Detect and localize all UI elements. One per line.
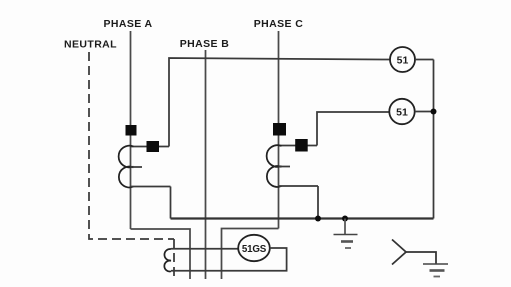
- wire CT A bottom lead drop to ground bus: [170, 187, 172, 219]
- wire relay 51 (A) to right bus: [415, 59, 434, 61]
- ground symbol (bus): [334, 235, 358, 249]
- wire phase C vertical: [278, 31, 280, 229]
- wire neutral drop through window CT: [173, 239, 175, 279]
- wire phase C jog to window CT: [222, 229, 279, 280]
- wire relay 51GS return loop: [171, 248, 287, 271]
- CT A winding tap tick: [131, 166, 143, 168]
- CT C winding tap tick: [279, 166, 291, 168]
- CT polarity mark phase C secondary: [295, 139, 308, 152]
- wire right return bus: [433, 60, 435, 219]
- wire CT A top lead riser to relay 51: [169, 58, 390, 147]
- svg-text:51GS: 51GS: [242, 244, 267, 255]
- svg-text:PHASE C: PHASE C: [254, 18, 303, 30]
- svg-text:PHASE B: PHASE B: [180, 38, 229, 50]
- CT polarity mark phase A secondary: [147, 141, 160, 152]
- svg-text:NEUTRAL: NEUTRAL: [64, 39, 117, 51]
- wire phase B vertical: [205, 50, 207, 279]
- wire CT A secondary top lead: [131, 146, 170, 148]
- wire CT A bottom lead: [131, 186, 171, 188]
- ground symbol (right): [423, 264, 448, 277]
- node junction CT C return on bus: [315, 216, 321, 222]
- wire neutral dashed: [89, 52, 174, 239]
- relay 51GS: [238, 235, 270, 261]
- node junction relay return: [431, 109, 437, 115]
- relay 51 phase C: [389, 99, 414, 124]
- wire ground stub: [344, 219, 346, 235]
- chevron connection symbol: [392, 240, 406, 265]
- node junction ground tap on bus: [342, 216, 348, 222]
- svg-text:51: 51: [397, 55, 409, 67]
- CT polarity mark phase C primary: [273, 123, 286, 136]
- wire CT C bottom lead: [279, 185, 319, 187]
- wire CT C bottom lead drop to ground bus: [317, 186, 319, 219]
- wire phase A jog to window CT: [131, 229, 191, 279]
- wire chevron to ground: [406, 252, 436, 264]
- wire ground bus: [171, 217, 434, 219]
- CT polarity mark phase A primary: [126, 125, 137, 136]
- CT A secondary winding: [119, 146, 134, 168]
- window CT (zero sequence) winding: [164, 249, 171, 261]
- relay 51 phase A: [390, 47, 415, 72]
- svg-text:PHASE A: PHASE A: [103, 18, 152, 30]
- wire relay 51 (C) to right bus: [415, 111, 434, 113]
- wire window CT top lead to relay 51GS: [171, 248, 238, 250]
- wire CT C secondary top lead: [279, 145, 318, 147]
- wire CT C top lead riser to relay 51: [317, 112, 390, 146]
- svg-text:51: 51: [396, 107, 408, 119]
- CT C secondary winding: [267, 145, 282, 167]
- wire phase A vertical: [130, 31, 132, 229]
